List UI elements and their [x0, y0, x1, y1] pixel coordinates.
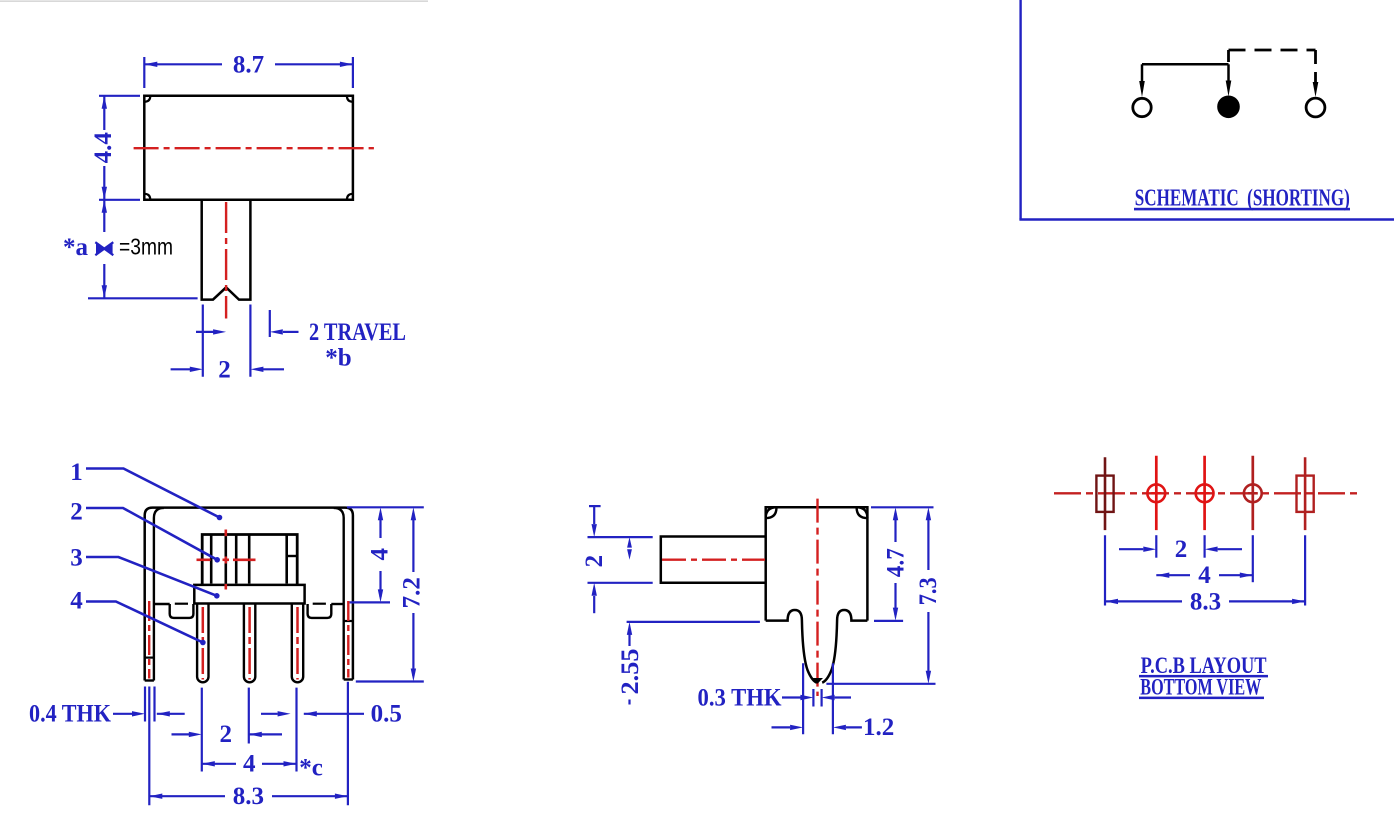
- svg-text:7.2: 7.2: [399, 577, 426, 608]
- svg-text:8.3: 8.3: [1190, 588, 1221, 615]
- svg-text:4.4: 4.4: [90, 132, 117, 164]
- svg-text:=3mm: =3mm: [119, 234, 173, 260]
- svg-text:4: 4: [1198, 562, 1211, 589]
- svg-text:0.5: 0.5: [371, 700, 402, 727]
- svg-text:4: 4: [70, 588, 83, 615]
- svg-text:SCHEMATIC (SHORTING): SCHEMATIC (SHORTING): [1135, 186, 1350, 212]
- svg-text:4: 4: [243, 751, 256, 778]
- svg-text:0.3 THK: 0.3 THK: [698, 684, 782, 711]
- svg-text:2: 2: [581, 555, 608, 568]
- svg-text:*a: *a: [63, 234, 89, 261]
- svg-text:8.3: 8.3: [233, 783, 264, 810]
- svg-text:4.7: 4.7: [883, 548, 910, 577]
- svg-text:3: 3: [70, 545, 83, 572]
- svg-text:2: 2: [218, 357, 231, 384]
- svg-text:2: 2: [220, 721, 233, 748]
- svg-text:0.4 THK: 0.4 THK: [29, 700, 111, 727]
- svg-text:1: 1: [70, 459, 83, 486]
- svg-text:*b: *b: [325, 344, 351, 371]
- svg-text:BOTTOM VIEW: BOTTOM VIEW: [1140, 674, 1261, 699]
- svg-text:2 TRAVEL: 2 TRAVEL: [309, 319, 406, 346]
- svg-text:*c: *c: [299, 755, 323, 782]
- svg-text:2: 2: [1175, 536, 1188, 563]
- svg-text:7.3: 7.3: [915, 577, 942, 605]
- svg-text:2: 2: [70, 498, 83, 525]
- svg-text:2.55: 2.55: [617, 649, 644, 695]
- svg-text:8.7: 8.7: [233, 52, 264, 79]
- svg-text:4: 4: [366, 548, 393, 561]
- svg-text:1.2: 1.2: [863, 714, 894, 741]
